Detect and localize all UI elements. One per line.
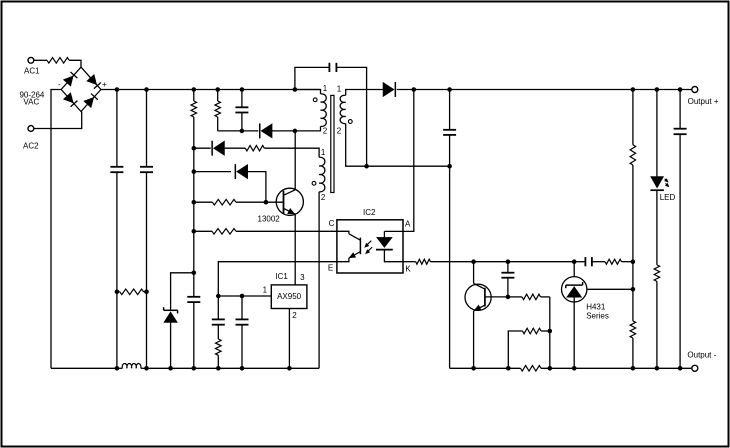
- junction secondary ground x=508.3: [506, 366, 511, 371]
- Q2 base wire: [485, 296, 508, 298]
- svg-text:1: 1: [321, 148, 326, 157]
- wire Vcc to base resistor: [194, 201, 213, 203]
- wire bridge minus to primary ground rail: [51, 90, 61, 369]
- junction Vcc-base resistor row: [192, 200, 197, 205]
- startup resistor: [191, 101, 197, 117]
- base discharge diode: [237, 165, 248, 179]
- compensation resistor: [605, 259, 622, 264]
- junction on DC rail x=193.8: [192, 87, 197, 92]
- divider mid wire: [632, 262, 634, 321]
- junction Vcc-ground: [192, 366, 197, 371]
- junction divider top: [631, 87, 636, 92]
- junction Q2 base node: [506, 295, 511, 300]
- wire opto E to IC1 node: [218, 262, 337, 296]
- junction on DC rail x=217.7: [215, 87, 220, 92]
- divider lower resistor: [630, 321, 636, 338]
- svg-text:2: 2: [321, 193, 326, 202]
- junction C2-bleeder: [144, 290, 149, 295]
- junction secondary ground x=549.8: [548, 366, 553, 371]
- bridge diode D3 (top-right): [87, 75, 97, 85]
- output capacitor C-out1 branch: [449, 90, 451, 130]
- svg-text:C: C: [329, 219, 335, 228]
- bleeder resistor: [117, 291, 120, 293]
- divider upper resistor: [630, 145, 636, 165]
- svg-text:IC2: IC2: [363, 208, 376, 217]
- svg-text:E: E: [328, 264, 333, 273]
- aux polarity dot: [312, 181, 316, 185]
- wire aux resistor to winding pin1: [264, 148, 319, 157]
- svg-text:1: 1: [337, 84, 342, 93]
- wire clamp node to diode: [242, 130, 258, 132]
- H431 ref wire: [587, 288, 633, 290]
- svg-text:1: 1: [263, 285, 268, 294]
- pin1 resistor a: [216, 339, 222, 355]
- svg-text:A: A: [405, 220, 411, 229]
- svg-text:H431: H431: [586, 302, 606, 311]
- Y capacitor: [328, 63, 330, 72]
- junction base node: [264, 200, 269, 205]
- junction rectifier-optoA: [412, 87, 417, 92]
- Q2 base bar: [484, 288, 486, 307]
- secondary rail resistor: [521, 366, 542, 372]
- wire comp cap to resistor: [592, 261, 605, 263]
- junction divider-ref: [631, 287, 636, 292]
- primary ground rail: [51, 367, 117, 369]
- junction secondary ground x=656.9: [655, 366, 660, 371]
- wire bridge plus to DC rail: [101, 89, 117, 91]
- svg-text:13002: 13002: [258, 215, 281, 224]
- junction LED top: [655, 87, 660, 92]
- junction on DC rail x=241.9: [240, 87, 245, 92]
- junction Vcc-opto C row: [192, 229, 197, 234]
- junction IC1 pin2 ground: [287, 366, 292, 371]
- H431 circle: [562, 277, 587, 302]
- wire Vcc line: [193, 148, 195, 273]
- wire DC+ rail primary: [117, 89, 321, 91]
- wire Vcc to C-row resistor: [194, 230, 212, 232]
- wire base resistor corner down: [549, 297, 551, 331]
- svg-text:Series: Series: [586, 312, 609, 321]
- wire secondary pin1 to rectifier: [346, 90, 383, 96]
- junction feedback-Q2 collector: [471, 259, 476, 264]
- svg-text:K: K: [405, 265, 411, 274]
- wire base diode to base node: [248, 172, 266, 203]
- svg-text:AC1: AC1: [24, 66, 40, 75]
- clamp capacitor: [235, 106, 248, 108]
- secondary ground rail: [450, 367, 521, 369]
- opto LED anode wire: [383, 231, 385, 237]
- startup resistor from rail: [193, 90, 195, 102]
- wire K resistor to feedback node: [430, 261, 473, 263]
- wire opto A pin: [384, 90, 413, 232]
- divider upper wire: [632, 90, 634, 145]
- opto K resistor: [416, 259, 431, 264]
- junction switch node: [293, 129, 298, 134]
- junction branch-b ground: [240, 366, 245, 371]
- wire Vcc to base diode: [194, 171, 231, 173]
- H431 cathode wire: [573, 262, 575, 277]
- wire AC1 to fusible resistor: [34, 59, 47, 61]
- zener diode ZD1: [164, 312, 177, 323]
- secondary polarity dot: [348, 120, 352, 124]
- fusible resistor F1: [47, 58, 69, 64]
- opto LED: [377, 237, 392, 247]
- wire fusible resistor to bridge top: [69, 60, 81, 67]
- junction outcap2 top: [678, 87, 683, 92]
- indicator LED: [651, 177, 664, 188]
- junction secondary ground x=473.6: [471, 366, 476, 371]
- compensation capacitor: [584, 257, 586, 266]
- bridge diode D2 (left-bottom): [63, 93, 73, 103]
- IC2 box: [337, 220, 403, 273]
- bridge rectifier frame: [61, 67, 101, 111]
- output cap2 wire: [679, 90, 681, 129]
- bridge diode D1 (left-top): [63, 76, 73, 86]
- output capacitor C-out2: [674, 128, 687, 130]
- capacitor C2: [140, 166, 153, 168]
- Q2 emitter wire: [474, 305, 485, 311]
- parallel resistor row: [541, 330, 550, 332]
- wire rectifier to output rail: [397, 89, 692, 91]
- junction branch-a ground: [216, 366, 221, 371]
- wire opto K pin: [403, 261, 416, 263]
- svg-text:Output +: Output +: [688, 97, 719, 106]
- Y-cap left wire: [295, 67, 330, 89]
- base resistor: [212, 199, 236, 205]
- opto phototransistor base bar: [359, 238, 361, 255]
- junction clamp node: [240, 129, 245, 134]
- pin1 capacitor b: [236, 318, 249, 320]
- wire secondary return down: [449, 166, 451, 368]
- Q1 emitter wire: [284, 208, 296, 214]
- junction zener-ground: [168, 366, 173, 371]
- H431 zener bar: [566, 284, 583, 286]
- Y-cap right wire: [336, 67, 366, 166]
- wire feedback row: [474, 261, 575, 263]
- Q2 base capacitor: [501, 272, 514, 274]
- capacitor Vcc: [187, 296, 200, 298]
- aux series resistor: [245, 145, 264, 151]
- svg-text:+: +: [102, 80, 107, 89]
- bridge diode D4 (bottom-right): [84, 98, 94, 108]
- aux rectifier diode: [214, 141, 225, 155]
- junction IC1 pin1 cap b: [240, 294, 245, 299]
- junction Vcc-zener tap: [192, 271, 197, 276]
- junction IC1 pin1 cap a: [216, 294, 221, 299]
- junction divider-comp: [631, 259, 636, 264]
- LED series resistor: [654, 265, 660, 282]
- svg-text:Output -: Output -: [687, 351, 716, 360]
- junction C1-ground: [115, 366, 120, 371]
- svg-text:AX950: AX950: [277, 292, 302, 301]
- H431 anode wire: [573, 297, 575, 368]
- C-row resistor: [212, 229, 236, 235]
- junction on DC rail x=146.5: [144, 87, 149, 92]
- wire clamp diode to switch node: [272, 130, 295, 132]
- clamp resistor branch: [217, 90, 219, 102]
- LED light arrow 2: [666, 183, 668, 185]
- Q2 emitter arrow: [474, 305, 481, 310]
- clamp resistor: [215, 101, 221, 117]
- svg-text:2: 2: [337, 126, 342, 135]
- Q2 collector wire: [473, 262, 475, 284]
- opto phototransistor collector: [337, 231, 349, 234]
- opto emitter arrow: [349, 253, 355, 258]
- junction C2-ground: [144, 366, 149, 371]
- Q1 collector wire: [294, 131, 296, 190]
- IC1 box: [271, 285, 307, 309]
- terminal Output+: [692, 87, 698, 93]
- wire aux diode to resistor: [224, 147, 245, 149]
- IC1 pin1 wire: [218, 295, 271, 297]
- pin1 capacitor a: [212, 318, 225, 320]
- wire base resistor to base node: [236, 201, 266, 203]
- wire C-row to optocoupler C pin: [236, 230, 337, 232]
- pin1 branch-a wire: [217, 296, 219, 319]
- wire primary pin2: [295, 126, 321, 130]
- opto phototransistor emitter: [349, 252, 361, 258]
- transformer secondary winding: [340, 95, 346, 123]
- opto light arrow 1: [366, 241, 371, 246]
- wire comp resistor to divider: [622, 261, 633, 263]
- junction output cap low: [447, 164, 452, 169]
- wire aux pin2 to primary ground: [318, 192, 320, 368]
- Q1 base bar: [283, 191, 285, 214]
- terminal AC2: [28, 126, 34, 132]
- LED column wire: [656, 90, 658, 177]
- svg-text:2: 2: [292, 311, 297, 320]
- junction secondary ground x=680.1: [678, 366, 683, 371]
- wire AC2 to bridge bottom: [34, 112, 82, 129]
- Q2 base resistor: [508, 296, 522, 298]
- ground rail filter inductor: [117, 367, 122, 369]
- wire cap C2 branch: [146, 90, 148, 167]
- junction feedback-base cap: [506, 259, 511, 264]
- junction parallel resistor right: [548, 329, 553, 334]
- svg-text:VAC: VAC: [23, 98, 39, 107]
- transformer core: [331, 95, 334, 192]
- svg-text:IC1: IC1: [275, 272, 288, 281]
- junction Y-cap to secondary return: [364, 164, 369, 169]
- wire cap C1 branch: [116, 90, 118, 167]
- pin1 branch-b wire: [241, 296, 243, 319]
- svg-text:3: 3: [300, 273, 305, 282]
- wire rail to primary pin1: [295, 90, 321, 94]
- terminal AC1: [28, 57, 34, 63]
- transistor Q2 circle: [465, 284, 491, 310]
- wire Vcc to aux diode: [194, 147, 211, 149]
- Q1 base wire: [266, 201, 284, 203]
- transformer primary winding: [321, 94, 327, 127]
- svg-text:LED: LED: [660, 193, 676, 202]
- junction on DC rail x=294.9: [293, 87, 298, 92]
- svg-text:-: -: [58, 80, 61, 89]
- svg-text:2: 2: [323, 127, 328, 136]
- junction C1-bleeder: [115, 290, 120, 295]
- junction feedback-H431 cathode: [572, 259, 577, 264]
- transistor Q1 circle: [276, 188, 303, 215]
- capacitor C1: [110, 166, 123, 168]
- zener branch wire: [171, 273, 194, 311]
- svg-text:AC2: AC2: [23, 141, 39, 150]
- opto light arrow 2: [367, 247, 372, 252]
- LED light arrow 1: [665, 179, 667, 181]
- zener to ground: [170, 322, 172, 368]
- junction output cap top: [447, 87, 452, 92]
- junction Vcc-aux diode: [192, 146, 197, 151]
- terminal Output-: [692, 365, 698, 371]
- clamp cap branch: [241, 90, 243, 108]
- H431 zener triangle: [567, 287, 582, 298]
- clamp diode: [261, 124, 272, 138]
- IC1 pin2 wire: [288, 309, 290, 369]
- Q2 base cap branch: [507, 262, 509, 273]
- junction secondary ground x=632.9: [631, 366, 636, 371]
- divider lower wire: [632, 338, 634, 368]
- svg-text:1: 1: [323, 84, 328, 93]
- secondary return wire: [346, 124, 450, 167]
- Q1 emitter arrow: [288, 209, 295, 214]
- junction Vcc-base diode row: [192, 169, 197, 174]
- junction secondary ground x=574.2: [572, 366, 577, 371]
- output capacitor C-out1: [443, 129, 456, 131]
- transformer aux winding: [319, 157, 325, 192]
- output rectifier diode: [383, 82, 394, 96]
- opto LED cathode wire: [384, 250, 403, 262]
- junction on DC rail x=116.9: [115, 87, 120, 92]
- primary polarity dot: [313, 98, 317, 102]
